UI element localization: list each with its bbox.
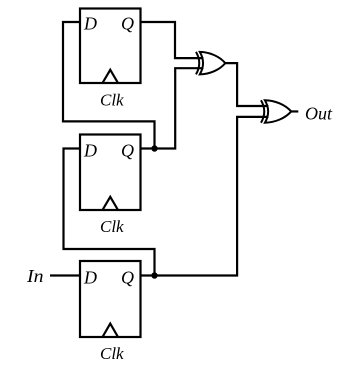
wire: U3.Q to X2 input B: [141, 117, 269, 276]
svg-text:Clk: Clk: [100, 344, 124, 363]
flip-flop U1 (top D flip-flop): [80, 9, 141, 84]
svg-text:Q: Q: [121, 13, 134, 33]
XOR gate X1: [196, 52, 225, 75]
wire: X2 output stub: [291, 110, 298, 112]
wire: U2.Q branch to U1.D: [63, 22, 155, 149]
svg-text:D: D: [83, 268, 97, 288]
wire: X1 output to X2 input A: [225, 63, 268, 106]
svg-text:Out: Out: [305, 103, 333, 123]
junction on U2.Q net: [151, 145, 157, 151]
wire: U1.Q to X1 input A: [141, 22, 204, 58]
wire: In to U3.D: [50, 274, 80, 276]
svg-text:D: D: [83, 141, 97, 161]
flip-flop U2 (middle D flip-flop): [80, 135, 141, 211]
wire: U3.Q branch to U2.D: [64, 149, 155, 276]
flip-flop U3 (bottom D flip-flop): [80, 261, 141, 337]
svg-text:Clk: Clk: [100, 217, 124, 236]
svg-text:Clk: Clk: [100, 91, 124, 110]
XOR gate X2: [261, 100, 291, 123]
junction on U3.Q net: [151, 272, 157, 278]
wire: U2.Q to X1 input B: [141, 68, 204, 148]
svg-text:Q: Q: [121, 141, 134, 161]
svg-text:D: D: [83, 13, 97, 33]
svg-text:Q: Q: [121, 268, 134, 288]
svg-text:In: In: [26, 266, 44, 286]
